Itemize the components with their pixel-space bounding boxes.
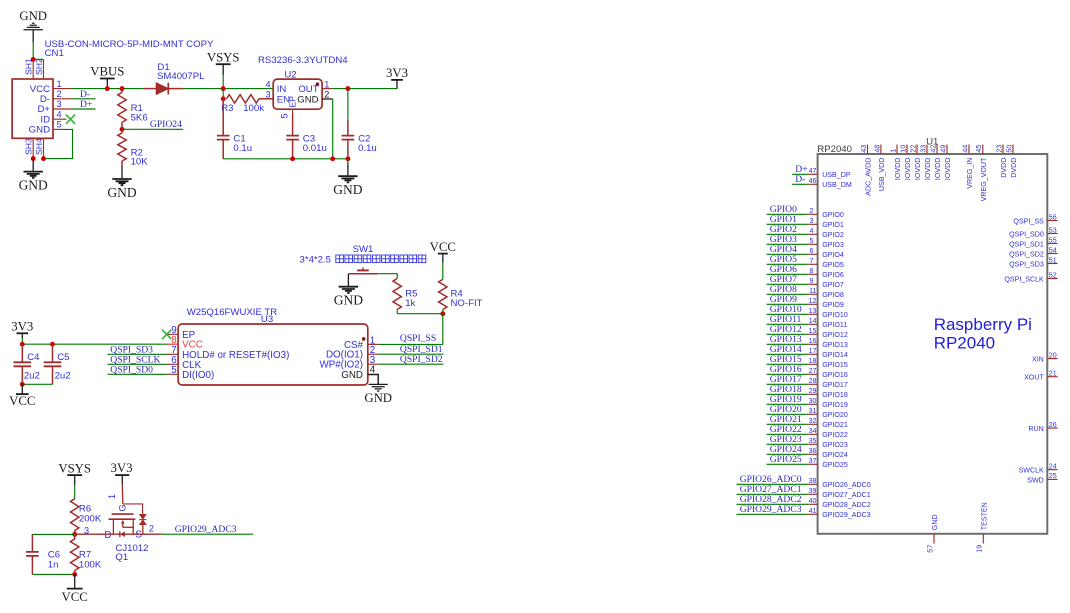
connector CN1 pin SH4 — [34, 138, 44, 159]
U1 pin 42 IOVDD (top) — [929, 145, 942, 181]
connector CN1 pin 4 ID with no-connect X — [40, 109, 75, 125]
svg-text:IN: IN — [277, 84, 287, 95]
junction VSYS main wire — [221, 86, 226, 91]
wire net D- — [792, 183, 808, 185]
svg-text:29: 29 — [809, 387, 817, 395]
wire Q1 drain (pin 3) — [75, 533, 109, 535]
svg-text:GPIO11: GPIO11 — [822, 321, 847, 329]
svg-text:DI(IO0): DI(IO0) — [182, 370, 214, 381]
svg-text:ADC_AVDD: ADC_AVDD — [865, 158, 873, 196]
svg-text:QSPI_SD0: QSPI_SD0 — [1009, 230, 1044, 238]
junction 3V3/C2 — [345, 86, 350, 91]
U1 pin 40 GPIO28_ADC2 — [808, 497, 870, 509]
svg-text:GPIO7: GPIO7 — [822, 281, 844, 289]
wire net GPIO17 — [767, 383, 809, 385]
power flag VBUS — [90, 65, 124, 89]
wire net D+ — [72, 108, 96, 110]
U1 pin 23 DVDD (top) — [995, 145, 1008, 178]
U2 pin1 OUT stub — [322, 88, 332, 90]
U1 pin 56 QSPI_SS — [1013, 213, 1057, 225]
svg-text:24: 24 — [1049, 463, 1057, 471]
U1 pin 9 GPIO7 — [808, 277, 844, 289]
svg-text:VSYS: VSYS — [207, 50, 240, 64]
wire net QSPI_SS — [379, 343, 443, 345]
svg-text:G: G — [118, 504, 128, 511]
U1 pin 24 SWCLK — [1019, 463, 1058, 475]
U1 pin 7 GPIO5 — [808, 257, 844, 269]
svg-text:12: 12 — [809, 297, 817, 305]
wire net GPIO29_ADC3 — [162, 533, 253, 535]
svg-text:33: 33 — [919, 145, 927, 153]
wire Q1 internal D-S — [109, 533, 162, 535]
svg-text:RS3236-3.3YUTDN4: RS3236-3.3YUTDN4 — [258, 55, 348, 66]
U1 pin 49 IOVDD (top) — [939, 145, 952, 181]
junction R4/R5 — [440, 311, 445, 316]
U1 pin 53 QSPI_SD0 — [1009, 226, 1058, 238]
svg-text:3V3: 3V3 — [110, 461, 132, 475]
svg-text:C4: C4 — [27, 352, 40, 363]
wire VSYS branch down to R3/C1 — [222, 89, 224, 99]
wire net GPIO23 — [767, 443, 809, 445]
U1 pin 29 GPIO18 — [808, 387, 847, 399]
junction R3/C1 — [221, 96, 226, 101]
svg-text:EP: EP — [288, 96, 298, 108]
svg-text:22: 22 — [909, 145, 917, 153]
svg-text:GND: GND — [19, 9, 47, 23]
ground GND below U3 pin 4 — [364, 375, 392, 405]
svg-text:NO-FIT: NO-FIT — [451, 298, 483, 309]
U1 pin 45 VREG_VOUT (top) — [975, 145, 988, 202]
U1 pin 37 GPIO25 — [808, 457, 847, 469]
svg-text:0.1u: 0.1u — [358, 143, 377, 154]
U1 pin 10 IOVDD (top) — [899, 145, 912, 181]
svg-text:VCC: VCC — [430, 240, 456, 254]
ground GND (top-left, above CN1 shield) — [19, 9, 47, 42]
wire net QSPI_SD2 — [379, 363, 444, 365]
connector CN1 pin SH1 — [24, 58, 34, 79]
svg-text:QSPI_SCLK: QSPI_SCLK — [1004, 275, 1044, 283]
resistor R4 NO-FIT — [439, 279, 483, 313]
svg-text:13: 13 — [809, 307, 817, 315]
svg-text:GPIO22: GPIO22 — [822, 431, 848, 439]
svg-text:5: 5 — [810, 237, 814, 245]
wire net D+ — [792, 173, 808, 175]
U1 pin 39 GPIO27_ADC1 — [808, 487, 870, 499]
connector CN1 body — [12, 79, 53, 138]
wire R5 to R4 junction — [397, 313, 443, 315]
svg-text:IOVDD: IOVDD — [934, 158, 942, 180]
wire net GPIO1 — [767, 223, 809, 225]
power flag 3V3 (top right of U2) — [386, 66, 408, 89]
U1 pin 22 IOVDD (top) — [909, 145, 922, 181]
svg-text:43: 43 — [860, 145, 868, 153]
svg-text:Q1: Q1 — [115, 552, 128, 563]
svg-text:4: 4 — [265, 79, 270, 89]
U3 pin 3 WP#(IO2) — [319, 355, 378, 371]
junction C3 bottom — [290, 156, 295, 161]
svg-text:2: 2 — [149, 524, 154, 534]
diode D1 SM4007PL — [143, 62, 205, 94]
svg-text:3: 3 — [57, 99, 62, 109]
U3 pin 4 GND — [341, 364, 376, 381]
svg-text:31: 31 — [809, 407, 817, 415]
svg-text:GPIO29_ADC3: GPIO29_ADC3 — [822, 511, 871, 519]
U1 pin 8 GPIO6 — [808, 267, 844, 279]
capacitor C2 0.1u — [342, 89, 377, 159]
U1 pin 31 GPIO20 — [808, 407, 847, 419]
wire net GPIO2 — [767, 233, 809, 235]
wire net GPIO28_ADC2 — [737, 503, 809, 505]
wire net GPIO21 — [767, 423, 809, 425]
transistor Q1 CJ1012 — [84, 484, 154, 563]
svg-text:50: 50 — [1005, 145, 1013, 153]
wire net GPIO8 — [767, 293, 809, 295]
wire node to C6 — [32, 534, 74, 536]
wire net GPIO19 — [767, 403, 809, 405]
U1 pin 52 QSPI_SCLK — [1004, 271, 1057, 283]
svg-text:5: 5 — [57, 120, 62, 130]
wire net GPIO11 — [767, 323, 809, 325]
resistor R3 100k — [221, 95, 273, 115]
resistor R6 200K — [71, 499, 102, 535]
svg-text:7: 7 — [810, 257, 814, 265]
svg-text:6: 6 — [810, 247, 814, 255]
wire net QSPI_SD0 — [108, 373, 169, 375]
U1 pin 51 QSPI_SD3 — [1009, 256, 1058, 268]
svg-text:5: 5 — [280, 113, 290, 118]
svg-text:1: 1 — [107, 494, 117, 499]
wire C6 bottom to R7 bottom — [32, 573, 74, 575]
svg-text:USB_DP: USB_DP — [822, 171, 851, 179]
power flag VCC above R4 — [430, 240, 456, 280]
svg-text:57: 57 — [926, 545, 934, 553]
wire net GPIO29_ADC3 — [737, 513, 809, 515]
svg-text:GND: GND — [931, 514, 939, 530]
U1 pin 19 TESTEN (bottom) — [976, 502, 989, 552]
wire net GPIO10 — [767, 313, 809, 315]
svg-text:GND: GND — [107, 185, 136, 200]
power flag 3V3 (above Q1) — [110, 461, 132, 484]
svg-text:55: 55 — [1049, 236, 1057, 244]
svg-text:DVDD: DVDD — [1000, 158, 1008, 178]
svg-text:100K: 100K — [79, 559, 102, 570]
svg-text:39: 39 — [809, 487, 817, 495]
svg-text:28: 28 — [809, 377, 817, 385]
U1 pin 3 GPIO1 — [808, 217, 844, 229]
connector CN1 pin SH3 — [24, 138, 34, 159]
svg-text:2u2: 2u2 — [55, 370, 71, 381]
U1 pin 33 IOVDD (top) — [919, 145, 932, 181]
svg-text:SH4: SH4 — [34, 138, 44, 155]
svg-text:VCC: VCC — [9, 394, 35, 408]
svg-text:14: 14 — [809, 317, 817, 325]
svg-text:GPIO3: GPIO3 — [822, 241, 844, 249]
svg-text:53: 53 — [1049, 226, 1057, 234]
svg-text:GPIO27_ADC1: GPIO27_ADC1 — [822, 491, 871, 499]
svg-text:5: 5 — [171, 365, 177, 376]
svg-text:GPIO15: GPIO15 — [822, 361, 848, 369]
svg-text:100k: 100k — [243, 103, 264, 114]
power flag VSYS (bottom left) — [58, 461, 91, 499]
wire SW1 to R5 — [378, 274, 398, 279]
U1 pin 47 USB_DP — [808, 167, 850, 179]
wire U2 GND down to bottom bus — [332, 99, 334, 159]
svg-text:GPIO14: GPIO14 — [822, 351, 848, 359]
svg-text:USB_DM: USB_DM — [822, 181, 852, 189]
svg-text:VREG_VOUT: VREG_VOUT — [980, 157, 988, 201]
U1 pin 28 GPIO17 — [808, 377, 847, 389]
svg-text:USB_VDD: USB_VDD — [878, 158, 886, 192]
wire net GPIO15 — [767, 363, 809, 365]
svg-text:1: 1 — [57, 79, 62, 89]
svg-text:49: 49 — [939, 145, 947, 153]
power flag VCC below C4 — [9, 384, 35, 408]
flash U3 W25Q16FWUXIE TR — [178, 307, 368, 385]
svg-text:GND: GND — [333, 182, 362, 197]
svg-text:4: 4 — [57, 109, 62, 119]
U3 pin 5 DI(IO0) — [168, 365, 214, 381]
wire 3V3 rail to U3 VCC — [22, 343, 168, 345]
wire junction down to QSPI_SS — [442, 314, 444, 345]
svg-text:23: 23 — [995, 145, 1003, 153]
wire net GPIO26_ADC0 — [737, 483, 809, 485]
wire net GPIO7 — [767, 283, 809, 285]
svg-text:USB-CON-MICRO-5P-MID-MNT COPY: USB-CON-MICRO-5P-MID-MNT COPY — [45, 39, 214, 50]
svg-text:15: 15 — [809, 327, 817, 335]
svg-text:3: 3 — [810, 217, 814, 225]
U1 pin 41 GPIO29_ADC3 — [808, 507, 870, 519]
U2 pin5 EP stub — [292, 109, 294, 113]
U1 pin 21 XOUT — [1024, 370, 1058, 382]
U1 pin 2 GPIO0 — [808, 207, 844, 219]
capacitor C6 1n — [26, 534, 60, 574]
svg-text:VBUS: VBUS — [90, 65, 124, 79]
ground GND below CN1 — [19, 159, 48, 193]
wire VBUS rail from CN1 pin1 to D1 — [72, 88, 144, 90]
U1 pin 18 GPIO15 — [808, 357, 847, 369]
U1 pin 35 GPIO23 — [808, 437, 847, 449]
svg-text:GND: GND — [364, 391, 392, 405]
junction C2 bottom — [345, 156, 350, 161]
svg-text:1: 1 — [324, 79, 329, 89]
U1 pin 12 GPIO9 — [808, 297, 844, 309]
svg-text:SH3: SH3 — [24, 138, 34, 155]
ground GND below U2 bus — [333, 159, 362, 197]
svg-text:RUN: RUN — [1028, 425, 1043, 433]
svg-text:SM4007PL: SM4007PL — [157, 71, 205, 82]
junction VBUS flag — [105, 86, 110, 91]
svg-text:4: 4 — [370, 364, 376, 375]
svg-text:38: 38 — [809, 477, 817, 485]
svg-text:26: 26 — [1049, 421, 1057, 429]
svg-text:47: 47 — [809, 167, 817, 175]
capacitor C1 0.1u — [217, 99, 252, 159]
svg-text:32: 32 — [809, 417, 817, 425]
U1 pin 25 SWD — [1027, 472, 1057, 484]
wire net GPIO18 — [767, 393, 809, 395]
svg-text:GPIO21: GPIO21 — [822, 421, 848, 429]
U1 pin 5 GPIO3 — [808, 237, 844, 249]
wire net D- — [72, 98, 96, 100]
svg-text:VREG_IN: VREG_IN — [966, 158, 974, 189]
svg-text:0.01u: 0.01u — [303, 143, 327, 154]
label SW1 chinese description 3*4*2.5 — [300, 255, 426, 266]
svg-text:GPIO2: GPIO2 — [822, 231, 844, 239]
wire net GPIO13 — [767, 343, 809, 345]
svg-text:GND: GND — [19, 178, 48, 193]
svg-text:Raspberry Pi: Raspberry Pi — [934, 315, 1032, 334]
svg-text:27: 27 — [809, 367, 817, 375]
svg-text:37: 37 — [809, 457, 817, 465]
svg-text:QSPI_SS: QSPI_SS — [1013, 217, 1044, 225]
svg-text:3V3: 3V3 — [11, 320, 33, 334]
svg-text:34: 34 — [809, 427, 817, 435]
svg-text:GPIO5: GPIO5 — [822, 261, 844, 269]
svg-text:VSYS: VSYS — [58, 461, 91, 475]
svg-text:XIN: XIN — [1032, 356, 1044, 364]
U1 pin 38 GPIO26_ADC0 — [808, 477, 870, 489]
svg-text:2: 2 — [324, 90, 329, 100]
svg-text:GPIO9: GPIO9 — [822, 301, 844, 309]
power flag VSYS (top) — [207, 50, 240, 88]
svg-text:30: 30 — [809, 397, 817, 405]
svg-text:45: 45 — [975, 145, 983, 153]
resistor R2 10K — [118, 129, 148, 167]
U1 pin 20 XIN — [1032, 351, 1058, 363]
U1 pin 4 GPIO2 — [808, 227, 844, 239]
svg-text:QSPI_SD0: QSPI_SD0 — [110, 364, 153, 375]
power flag VCC (bottom) — [62, 574, 88, 604]
svg-text:GPIO24: GPIO24 — [150, 119, 182, 130]
wire net GPIO14 — [767, 353, 809, 355]
svg-text:GPIO26_ADC0: GPIO26_ADC0 — [822, 481, 871, 489]
svg-text:21: 21 — [1049, 370, 1057, 378]
svg-text:GPIO16: GPIO16 — [822, 371, 848, 379]
ground GND below R2 — [107, 166, 136, 200]
wire net GPIO16 — [767, 373, 809, 375]
wire net GPIO24 — [122, 128, 183, 130]
wire net QSPI_SD1 — [379, 353, 444, 355]
svg-text:SW1: SW1 — [353, 244, 374, 255]
capacitor C3 0.01u — [286, 113, 327, 159]
svg-text:0.1u: 0.1u — [233, 143, 252, 154]
capacitor C5 2u2 — [44, 344, 71, 384]
svg-text:VCC: VCC — [62, 590, 88, 604]
U1 pin 50 DVDD (top) — [1005, 145, 1018, 178]
switch SW1 — [348, 244, 377, 274]
U3 pin 9 EP with no-connect X — [162, 325, 196, 341]
svg-text:RP2040: RP2040 — [934, 334, 995, 353]
svg-text:41: 41 — [809, 507, 817, 515]
svg-text:QSPI_SS: QSPI_SS — [400, 333, 436, 344]
svg-text:54: 54 — [1049, 246, 1057, 254]
svg-text:GPIO23: GPIO23 — [822, 441, 848, 449]
capacitor C4 2u2 — [14, 344, 41, 384]
svg-text:QSPI_SD3: QSPI_SD3 — [1009, 260, 1044, 268]
svg-text:RP2040: RP2040 — [817, 144, 852, 155]
resistor R5 1k — [393, 279, 417, 314]
connector CN1 pin 3 D+ — [37, 99, 71, 115]
svg-text:GPIO20: GPIO20 — [822, 411, 848, 419]
junction SH3 bottom — [31, 156, 36, 161]
svg-text:GPIO25: GPIO25 — [822, 461, 848, 469]
U1 pin 16 GPIO13 — [808, 337, 847, 349]
junction C5 top — [50, 342, 55, 347]
svg-text:2: 2 — [810, 207, 814, 215]
wire GND to CN1 shield pins — [32, 42, 34, 59]
svg-text:GND: GND — [341, 370, 363, 381]
svg-text:XOUT: XOUT — [1024, 374, 1044, 382]
connector CN1 pin 1 VCC — [30, 79, 72, 95]
svg-text:2: 2 — [57, 89, 62, 99]
svg-text:S: S — [135, 530, 142, 541]
svg-text:IOVDD: IOVDD — [924, 158, 932, 180]
svg-text:U3: U3 — [261, 314, 273, 325]
svg-text:GPIO17: GPIO17 — [822, 381, 848, 389]
svg-text:GPIO8: GPIO8 — [822, 291, 844, 299]
U3 pin 7 HOLD#/RESET# — [168, 345, 289, 361]
svg-text:5K6: 5K6 — [131, 112, 148, 123]
svg-text:10: 10 — [899, 145, 907, 153]
svg-text:4: 4 — [810, 227, 814, 235]
U1 pin 32 GPIO21 — [808, 417, 847, 429]
svg-text:GPIO19: GPIO19 — [822, 401, 848, 409]
mcu U1 RP2040 body — [817, 137, 1047, 534]
svg-text:SWD: SWD — [1027, 476, 1044, 484]
svg-text:GPIO18: GPIO18 — [822, 391, 848, 399]
U1 pin 6 GPIO4 — [808, 247, 844, 259]
junction R7 bottom — [72, 572, 77, 577]
svg-text:D-: D- — [795, 174, 805, 185]
svg-text:GPIO1: GPIO1 — [822, 221, 844, 229]
U1 pin 55 QSPI_SD1 — [1009, 236, 1058, 248]
junction U2 GND bottom — [330, 156, 335, 161]
svg-text:GPIO12: GPIO12 — [822, 331, 848, 339]
svg-text:GPIO29_ADC3: GPIO29_ADC3 — [740, 504, 802, 515]
junction C4 top — [20, 342, 25, 347]
wire net GPIO27_ADC1 — [737, 493, 809, 495]
U1 pin 44 VREG_IN (top) — [961, 145, 974, 189]
svg-text:2u2: 2u2 — [24, 370, 40, 381]
wire OUT to 3V3 — [332, 88, 397, 90]
svg-text:GPIO0: GPIO0 — [822, 211, 844, 219]
label Raspberry Pi RP2040 — [934, 315, 1032, 353]
svg-text:QSPI_SD1: QSPI_SD1 — [1009, 240, 1044, 248]
junction C4 bottom — [20, 382, 25, 387]
svg-text:GND: GND — [334, 293, 363, 308]
wire net GPIO20 — [767, 413, 809, 415]
svg-text:GPIO24: GPIO24 — [822, 451, 848, 459]
U1 pin 13 GPIO10 — [808, 307, 847, 319]
wire C4/C5 bottom — [22, 383, 52, 385]
svg-text:19: 19 — [976, 545, 984, 553]
wire bottom ground bus of U2 — [223, 158, 348, 160]
U1 pin 14 GPIO11 — [808, 317, 847, 329]
wire net GPIO0 — [767, 213, 809, 215]
U1 pin 34 GPIO22 — [808, 427, 847, 439]
U1 pin 26 RUN — [1028, 421, 1057, 433]
resistor R1 5K6 — [118, 89, 148, 130]
svg-text:51: 51 — [1049, 256, 1057, 264]
connector CN1 pin SH2 — [34, 58, 44, 79]
junction R1/R2 GPIO24 node — [120, 127, 125, 132]
svg-text:IOVDD: IOVDD — [894, 158, 902, 180]
U1 pin 15 GPIO12 — [808, 327, 847, 339]
wire net QSPI_SCLK — [108, 363, 169, 365]
U1 pin 43 ADC_AVDD (top) — [860, 145, 873, 196]
svg-text:48: 48 — [873, 145, 881, 153]
svg-text:GPIO25: GPIO25 — [770, 454, 802, 465]
